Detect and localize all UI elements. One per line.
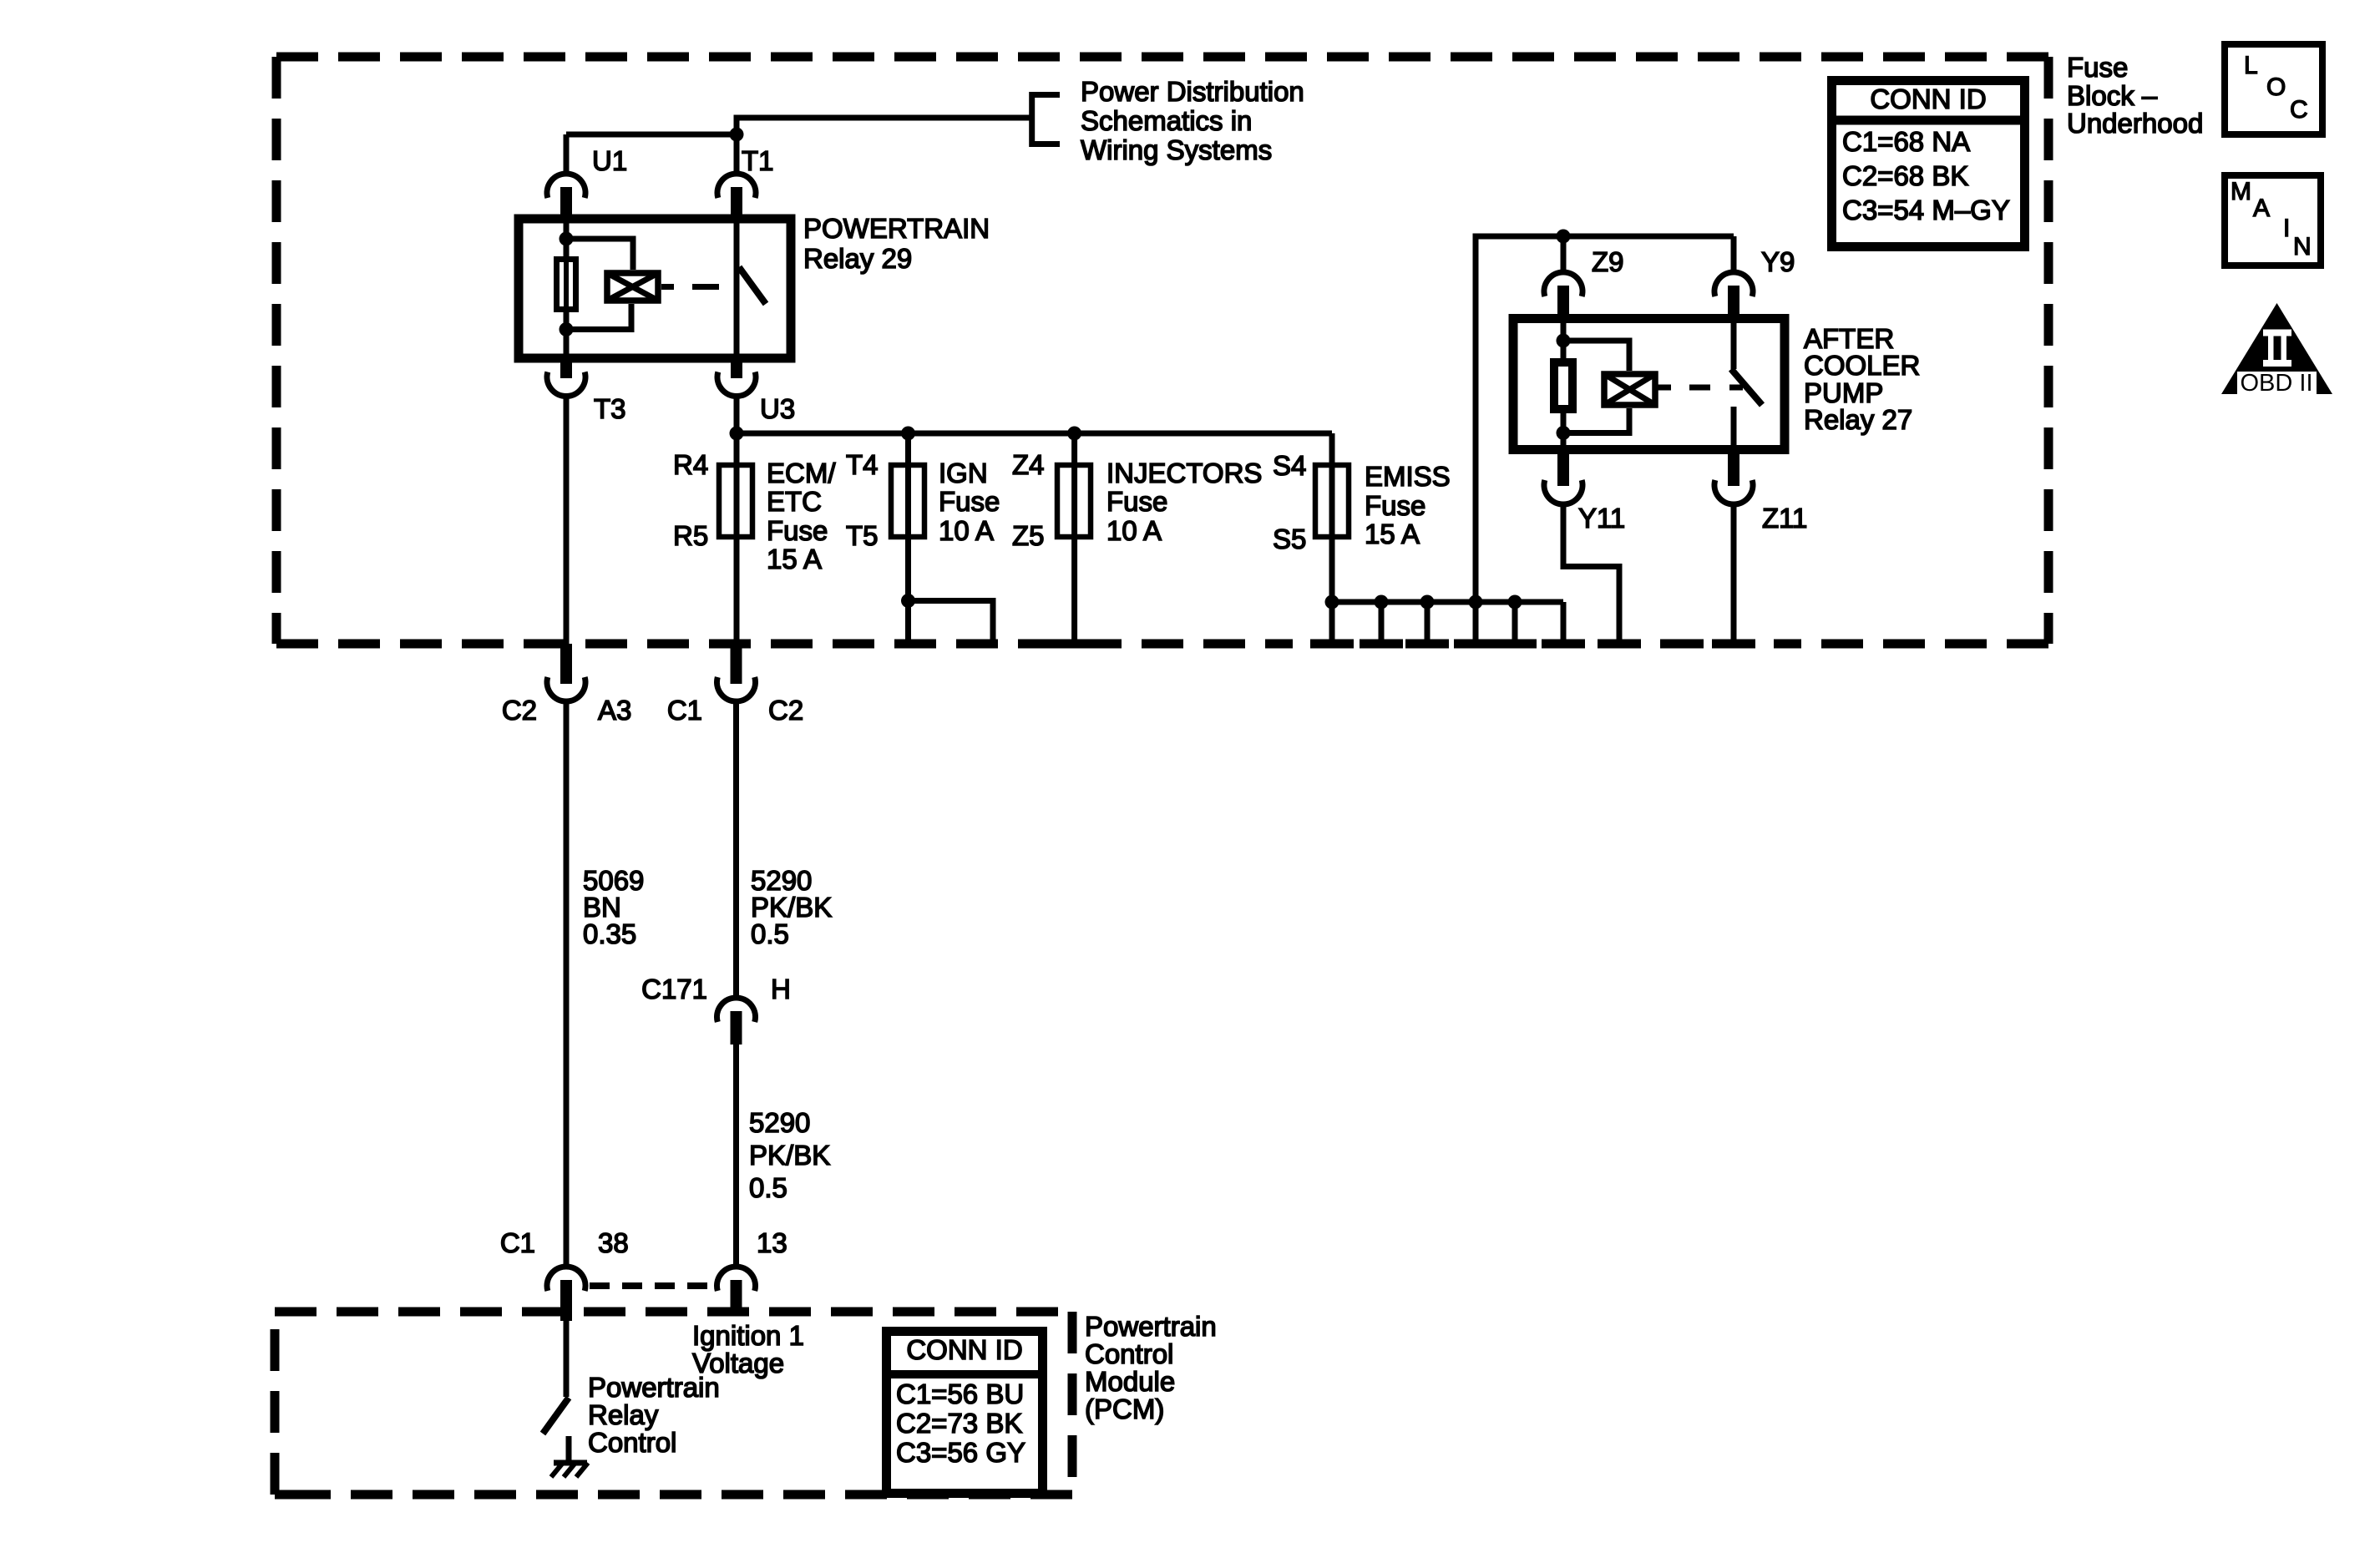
junction Z9 feed	[1557, 230, 1571, 244]
relay K27 switch blade	[1731, 369, 1762, 405]
connector U1 (cap)	[547, 174, 585, 198]
svg-text:R5: R5	[673, 520, 708, 551]
wire: U3 down to fuse bus	[734, 397, 740, 434]
svg-text:H: H	[771, 974, 791, 1004]
svg-text:10 A: 10 A	[1106, 515, 1162, 546]
svg-text:CONN ID: CONN ID	[906, 1334, 1022, 1365]
relay K29 solenoid X-box	[607, 273, 658, 301]
svg-text:U3: U3	[760, 393, 795, 424]
connector Y11 blade	[1557, 453, 1569, 486]
relay K27 coil wire upper	[1561, 319, 1567, 359]
svg-text:T5: T5	[846, 520, 879, 551]
svg-text:C2: C2	[768, 695, 803, 726]
CONN ID table (fuse block)	[1827, 81, 2029, 247]
label Fuse Block - Underhood	[2067, 52, 2203, 139]
connector U3 blade	[731, 362, 742, 378]
svg-text:C1: C1	[667, 695, 702, 726]
PCM dashed enclosure: right border	[1068, 1312, 1077, 1495]
svg-text:A3: A3	[598, 695, 631, 726]
svg-text:Z5: Z5	[1012, 520, 1045, 551]
svg-text:C3=54 M–GY: C3=54 M–GY	[1842, 195, 2010, 225]
relay K27 coil element	[1554, 362, 1572, 409]
svg-text:Power Distribution: Power Distribution	[1081, 76, 1304, 107]
svg-text:0.5: 0.5	[749, 1172, 787, 1203]
relay K29 actuator dash	[692, 284, 719, 290]
connector C1/C2 blade (right exit)	[731, 644, 742, 684]
wire: drop to Z9 connector	[1561, 236, 1567, 272]
PCM switch lower contact	[566, 1436, 572, 1463]
svg-text:S4: S4	[1273, 450, 1306, 481]
junction comb 3	[1420, 595, 1435, 610]
LOC legend box	[2225, 44, 2322, 134]
connector Y9 blade	[1728, 286, 1739, 318]
fuse block dashed enclosure: bottom border (right part)	[1774, 640, 2048, 649]
svg-text:Fuse: Fuse	[1106, 486, 1167, 517]
wire: EMISS output comb bus	[1332, 599, 1563, 605]
comb stub 2	[1379, 602, 1385, 644]
label AFTER COOLER PUMP Relay 27	[1804, 323, 1920, 435]
wire: EMISS fuse leg	[1329, 433, 1335, 602]
label wire 5290 PK/BK 0.5 (upper)	[751, 865, 832, 949]
junction comb 2	[1375, 595, 1389, 610]
svg-text:EMISS: EMISS	[1365, 461, 1451, 492]
label Powertrain Relay Control	[588, 1372, 720, 1458]
connector T3 blade	[560, 362, 572, 378]
wire: INJECTORS fuse leg	[1071, 433, 1077, 644]
svg-text:Schematics in: Schematics in	[1081, 105, 1252, 136]
connector U3 (cup)	[717, 372, 756, 397]
svg-text:ECM/: ECM/	[767, 458, 836, 488]
svg-text:Z9: Z9	[1592, 246, 1624, 277]
comb feet caps on border	[1310, 640, 1755, 649]
junction bus at INJECTORS fuse	[1067, 427, 1081, 441]
connector T1 (cap)	[717, 174, 756, 198]
relay K29 POWERTRAIN Relay box	[519, 219, 791, 358]
PCM bottom-left corner dash	[275, 1490, 297, 1500]
svg-text:38: 38	[598, 1227, 629, 1258]
svg-text:IGN: IGN	[939, 458, 988, 488]
svg-text:A: A	[2253, 195, 2270, 222]
label ECM/ETC Fuse 15 A	[767, 458, 836, 574]
junction coil top	[1557, 334, 1571, 348]
relay K27 solenoid branch lower	[1563, 408, 1629, 433]
wire: ECM fuse leg	[734, 433, 740, 644]
connector C171 blade	[731, 1011, 742, 1045]
wire: right leg down to C171	[733, 701, 739, 998]
connector Y9 (cap)	[1714, 272, 1753, 296]
junction bus at IGN fuse	[901, 427, 915, 441]
svg-text:I: I	[2283, 215, 2290, 242]
wire: fuse feed bus	[737, 431, 1332, 437]
svg-text:15 A: 15 A	[1365, 518, 1420, 549]
comb stub 5	[1512, 602, 1518, 644]
comb stub 6 (bus end)	[1561, 602, 1567, 644]
label wire 5069 BN 0.35	[583, 865, 644, 949]
connector C171 (cap)	[717, 998, 756, 1022]
relay K29 switch through-wire	[734, 219, 740, 358]
wire: left leg down to PCM pin 38	[564, 701, 570, 1267]
svg-text:Powertrain: Powertrain	[1085, 1311, 1217, 1342]
junction comb 4	[1469, 595, 1483, 610]
svg-text:C171: C171	[641, 974, 707, 1004]
fuse block dashed enclosure: right border	[2044, 57, 2053, 644]
relay K27 solenoid X-box	[1604, 374, 1655, 405]
wire: feeder riser to relay 27	[1476, 236, 1734, 602]
label Powertrain Control Module (PCM)	[1085, 1311, 1217, 1424]
svg-text:Block –: Block –	[2067, 80, 2158, 111]
relay K29 switch blade	[739, 267, 766, 304]
svg-text:C: C	[2290, 96, 2308, 124]
relay K29 coil wire upper	[564, 219, 570, 256]
wire: C171 down to PCM pin 13	[733, 1045, 739, 1267]
svg-text:Fuse: Fuse	[939, 486, 1000, 517]
svg-text:Z11: Z11	[1762, 503, 1807, 534]
svg-text:Powertrain: Powertrain	[588, 1372, 720, 1403]
svg-text:10 A: 10 A	[939, 515, 994, 546]
svg-text:Control: Control	[1085, 1338, 1173, 1369]
svg-text:Module: Module	[1085, 1366, 1175, 1397]
relay K27 switch upper contact	[1731, 319, 1737, 370]
relay K27 AFTER COOLER PUMP Relay box	[1513, 319, 1785, 450]
svg-text:Relay 27: Relay 27	[1804, 404, 1912, 435]
CONN ID table (PCM)	[882, 1332, 1047, 1494]
fuse F1 ECM/ETC 15A	[719, 465, 752, 537]
connector C1/C2 (cup)	[717, 677, 756, 701]
svg-text:T3: T3	[594, 393, 626, 424]
relay K27 actuator tick	[1658, 385, 1671, 391]
fuse F4 EMISS 15A	[1315, 465, 1349, 537]
svg-text:C2=68 BK: C2=68 BK	[1842, 160, 1968, 191]
svg-text:R4: R4	[673, 449, 708, 480]
svg-text:N: N	[2293, 233, 2312, 261]
fuse F3 INJECTORS 10A	[1057, 465, 1091, 537]
connector Z11 blade	[1728, 453, 1739, 486]
label Ignition 1 Voltage	[692, 1320, 804, 1378]
svg-text:C1=68 NA: C1=68 NA	[1842, 126, 1970, 157]
connector C2/A3 (cup)	[547, 677, 585, 701]
svg-text:(PCM): (PCM)	[1085, 1394, 1164, 1424]
svg-text:C2=73 BK: C2=73 BK	[896, 1408, 1022, 1439]
connector PCM pin 13 (cap)	[717, 1267, 756, 1291]
svg-text:INJECTORS: INJECTORS	[1106, 458, 1262, 488]
wire: IGN fuse jog to border	[909, 601, 994, 645]
junction coil top	[560, 232, 574, 246]
connector Z9 blade	[1557, 286, 1569, 318]
relay K27 solenoid branch upper	[1563, 341, 1629, 371]
junction T1 feed	[730, 128, 744, 142]
PCM dashed enclosure: top border	[275, 1308, 1072, 1317]
wire: drop to U1 connector	[564, 134, 570, 174]
relay K27 actuator dash 2	[1729, 385, 1743, 391]
svg-text:CONN ID: CONN ID	[1870, 83, 1986, 114]
relay K27 actuator dash 1	[1689, 385, 1710, 391]
svg-text:C1=56 BU: C1=56 BU	[896, 1378, 1024, 1409]
wire: IGN fuse leg continues to border	[905, 601, 911, 645]
svg-text:S5: S5	[1273, 524, 1306, 554]
fuse block dashed enclosure: bottom border (left part)	[276, 640, 1293, 649]
relay K29 actuator tick	[661, 284, 674, 290]
label wire 5290 PK/BK 0.5 (lower)	[749, 1107, 830, 1203]
connector PCM pin 38 (cap)	[547, 1267, 585, 1291]
svg-text:OBD II: OBD II	[2240, 370, 2312, 397]
svg-text:Control: Control	[588, 1427, 676, 1458]
svg-text:ETC: ETC	[767, 486, 822, 517]
fuse F2 IGN 10A	[891, 465, 924, 537]
svg-text:Fuse: Fuse	[767, 515, 828, 546]
wire: Z11 to border	[1731, 504, 1737, 644]
svg-text:Z4: Z4	[1012, 449, 1045, 480]
label POWERTRAIN Relay 29	[803, 213, 990, 274]
comb stub 1	[1329, 602, 1335, 644]
svg-text:C3=56 GY: C3=56 GY	[896, 1437, 1025, 1468]
svg-text:L: L	[2244, 52, 2258, 79]
svg-text:13: 13	[757, 1227, 787, 1258]
svg-text:C1: C1	[500, 1227, 535, 1258]
svg-text:T1: T1	[742, 145, 774, 176]
svg-text:Underhood: Underhood	[2067, 108, 2203, 139]
ground (chassis)	[551, 1463, 588, 1477]
svg-text:PK/BK: PK/BK	[749, 1140, 830, 1171]
connector C2/A3 blade (left exit)	[560, 644, 572, 684]
label INJECTORS Fuse 10 A	[1106, 458, 1262, 546]
junction comb 5	[1508, 595, 1522, 610]
junction coil bottom	[1557, 426, 1571, 440]
connector PCM pin 13 blade	[731, 1280, 742, 1312]
fuse block underhood dashed enclosure: top border	[276, 53, 2048, 62]
PCM internal switch wire	[564, 1321, 570, 1397]
wire: drop to T1 connector	[734, 134, 740, 174]
PCM dashed enclosure: bottom border	[275, 1490, 1072, 1500]
dashed link between PCM pins	[590, 1282, 717, 1289]
wire: Y11 jog to border	[1563, 504, 1619, 644]
svg-text:U1: U1	[592, 145, 627, 176]
svg-text:O: O	[2266, 73, 2286, 101]
svg-text:Fuse: Fuse	[1365, 490, 1425, 521]
wire: U1 to T1 feed	[566, 132, 737, 138]
svg-text:Relay 29: Relay 29	[803, 243, 912, 274]
PCM internal switch blade	[543, 1398, 569, 1434]
MAIN legend box	[2225, 175, 2321, 266]
wire: T3 down to fuse block exit	[564, 397, 570, 645]
svg-text:Wiring Systems: Wiring Systems	[1081, 134, 1272, 165]
relay K27 switch lower contact	[1731, 407, 1737, 450]
svg-text:0.5: 0.5	[751, 918, 789, 949]
connector PCM pin 38 blade	[560, 1280, 572, 1321]
connector Z9 (cap)	[1544, 272, 1582, 296]
svg-text:POWERTRAIN: POWERTRAIN	[803, 213, 990, 244]
relay K27 coil wire lower	[1561, 413, 1567, 450]
connector U1 blade	[560, 187, 572, 219]
dash cap under INJECTORS foot	[1053, 640, 1096, 649]
reference bracket to Power Distribution Schematics	[1032, 95, 1060, 144]
comb stub 3	[1425, 602, 1431, 644]
connector T1 blade	[731, 187, 742, 219]
junction bus at ECM fuse	[730, 427, 744, 441]
label Power Distribution Schematics in Wiring Systems	[1081, 76, 1304, 165]
relay K29 solenoid branch lower	[566, 304, 631, 330]
junction IGN fuse jog	[901, 594, 915, 608]
junction comb 1	[1325, 595, 1339, 610]
svg-text:Ignition 1: Ignition 1	[692, 1320, 804, 1351]
label IGN Fuse 10 A	[939, 458, 1000, 546]
fuse block dashed enclosure: left border	[272, 57, 281, 644]
connector T3 (cup)	[547, 372, 585, 397]
connector Z11 (cup)	[1714, 480, 1753, 504]
svg-text:T4: T4	[846, 449, 879, 480]
svg-text:15 A: 15 A	[767, 544, 822, 574]
wire: IGN fuse leg	[905, 433, 911, 601]
wire: T1 junction to bracket	[737, 118, 1032, 134]
relay K29 coil wire lower	[564, 312, 570, 358]
svg-text:5290: 5290	[749, 1107, 810, 1138]
svg-text:Relay: Relay	[588, 1399, 659, 1430]
junction coil bottom	[560, 322, 574, 336]
label EMISS Fuse 15 A	[1365, 461, 1451, 549]
svg-text:C2: C2	[502, 695, 537, 726]
svg-text:COOLER: COOLER	[1804, 350, 1920, 381]
svg-text:Fuse: Fuse	[2067, 52, 2128, 83]
wire: drop to Y9 connector	[1731, 236, 1737, 272]
PCM dashed enclosure: left border	[271, 1312, 280, 1495]
relay K29 coil element	[557, 260, 576, 310]
svg-text:Y9: Y9	[1761, 246, 1795, 277]
svg-text:M: M	[2231, 178, 2251, 205]
svg-text:0.35: 0.35	[583, 918, 636, 949]
OBD II triangle symbol	[2221, 303, 2332, 397]
comb stub 4	[1473, 602, 1479, 644]
fuse block dashed enclosure: bottom border (middle dash)	[1660, 640, 1704, 649]
relay K29 solenoid branch upper	[566, 239, 633, 270]
svg-text:Y11: Y11	[1578, 503, 1625, 534]
connector Y11 (cup)	[1544, 480, 1582, 504]
